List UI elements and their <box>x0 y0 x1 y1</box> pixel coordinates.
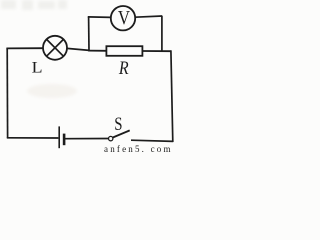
wire bottom-left to battery <box>7 137 59 139</box>
lamp L <box>43 36 67 60</box>
svg-text:R: R <box>118 57 129 79</box>
battery short plate <box>63 134 66 146</box>
resistor R <box>106 46 142 56</box>
svg-text:V: V <box>118 7 131 29</box>
wire node B down branch <box>161 16 163 51</box>
svg-text:L: L <box>32 58 43 76</box>
scan smudge middle <box>27 84 77 98</box>
wire switch to bottom-right corner <box>131 140 173 141</box>
wire top-left to lamp <box>6 47 43 49</box>
wire node A to resistor <box>88 50 107 52</box>
voltmeter V <box>111 6 135 30</box>
wire branch to voltmeter <box>88 16 111 19</box>
wire lamp to node A <box>67 48 90 50</box>
scan smudge top-left <box>1 0 67 10</box>
wire right vertical <box>171 50 173 142</box>
wire battery to switch <box>65 138 109 140</box>
svg-text:S: S <box>114 113 122 134</box>
switch S <box>109 130 130 140</box>
battery long plate <box>58 126 60 148</box>
svg-text:anfen5. com: anfen5. com <box>104 144 173 153</box>
wire voltmeter to node B <box>135 16 162 17</box>
wire resistor to top-right corner <box>142 50 171 52</box>
wire node A up branch <box>88 17 90 52</box>
wire left vertical <box>6 48 8 138</box>
